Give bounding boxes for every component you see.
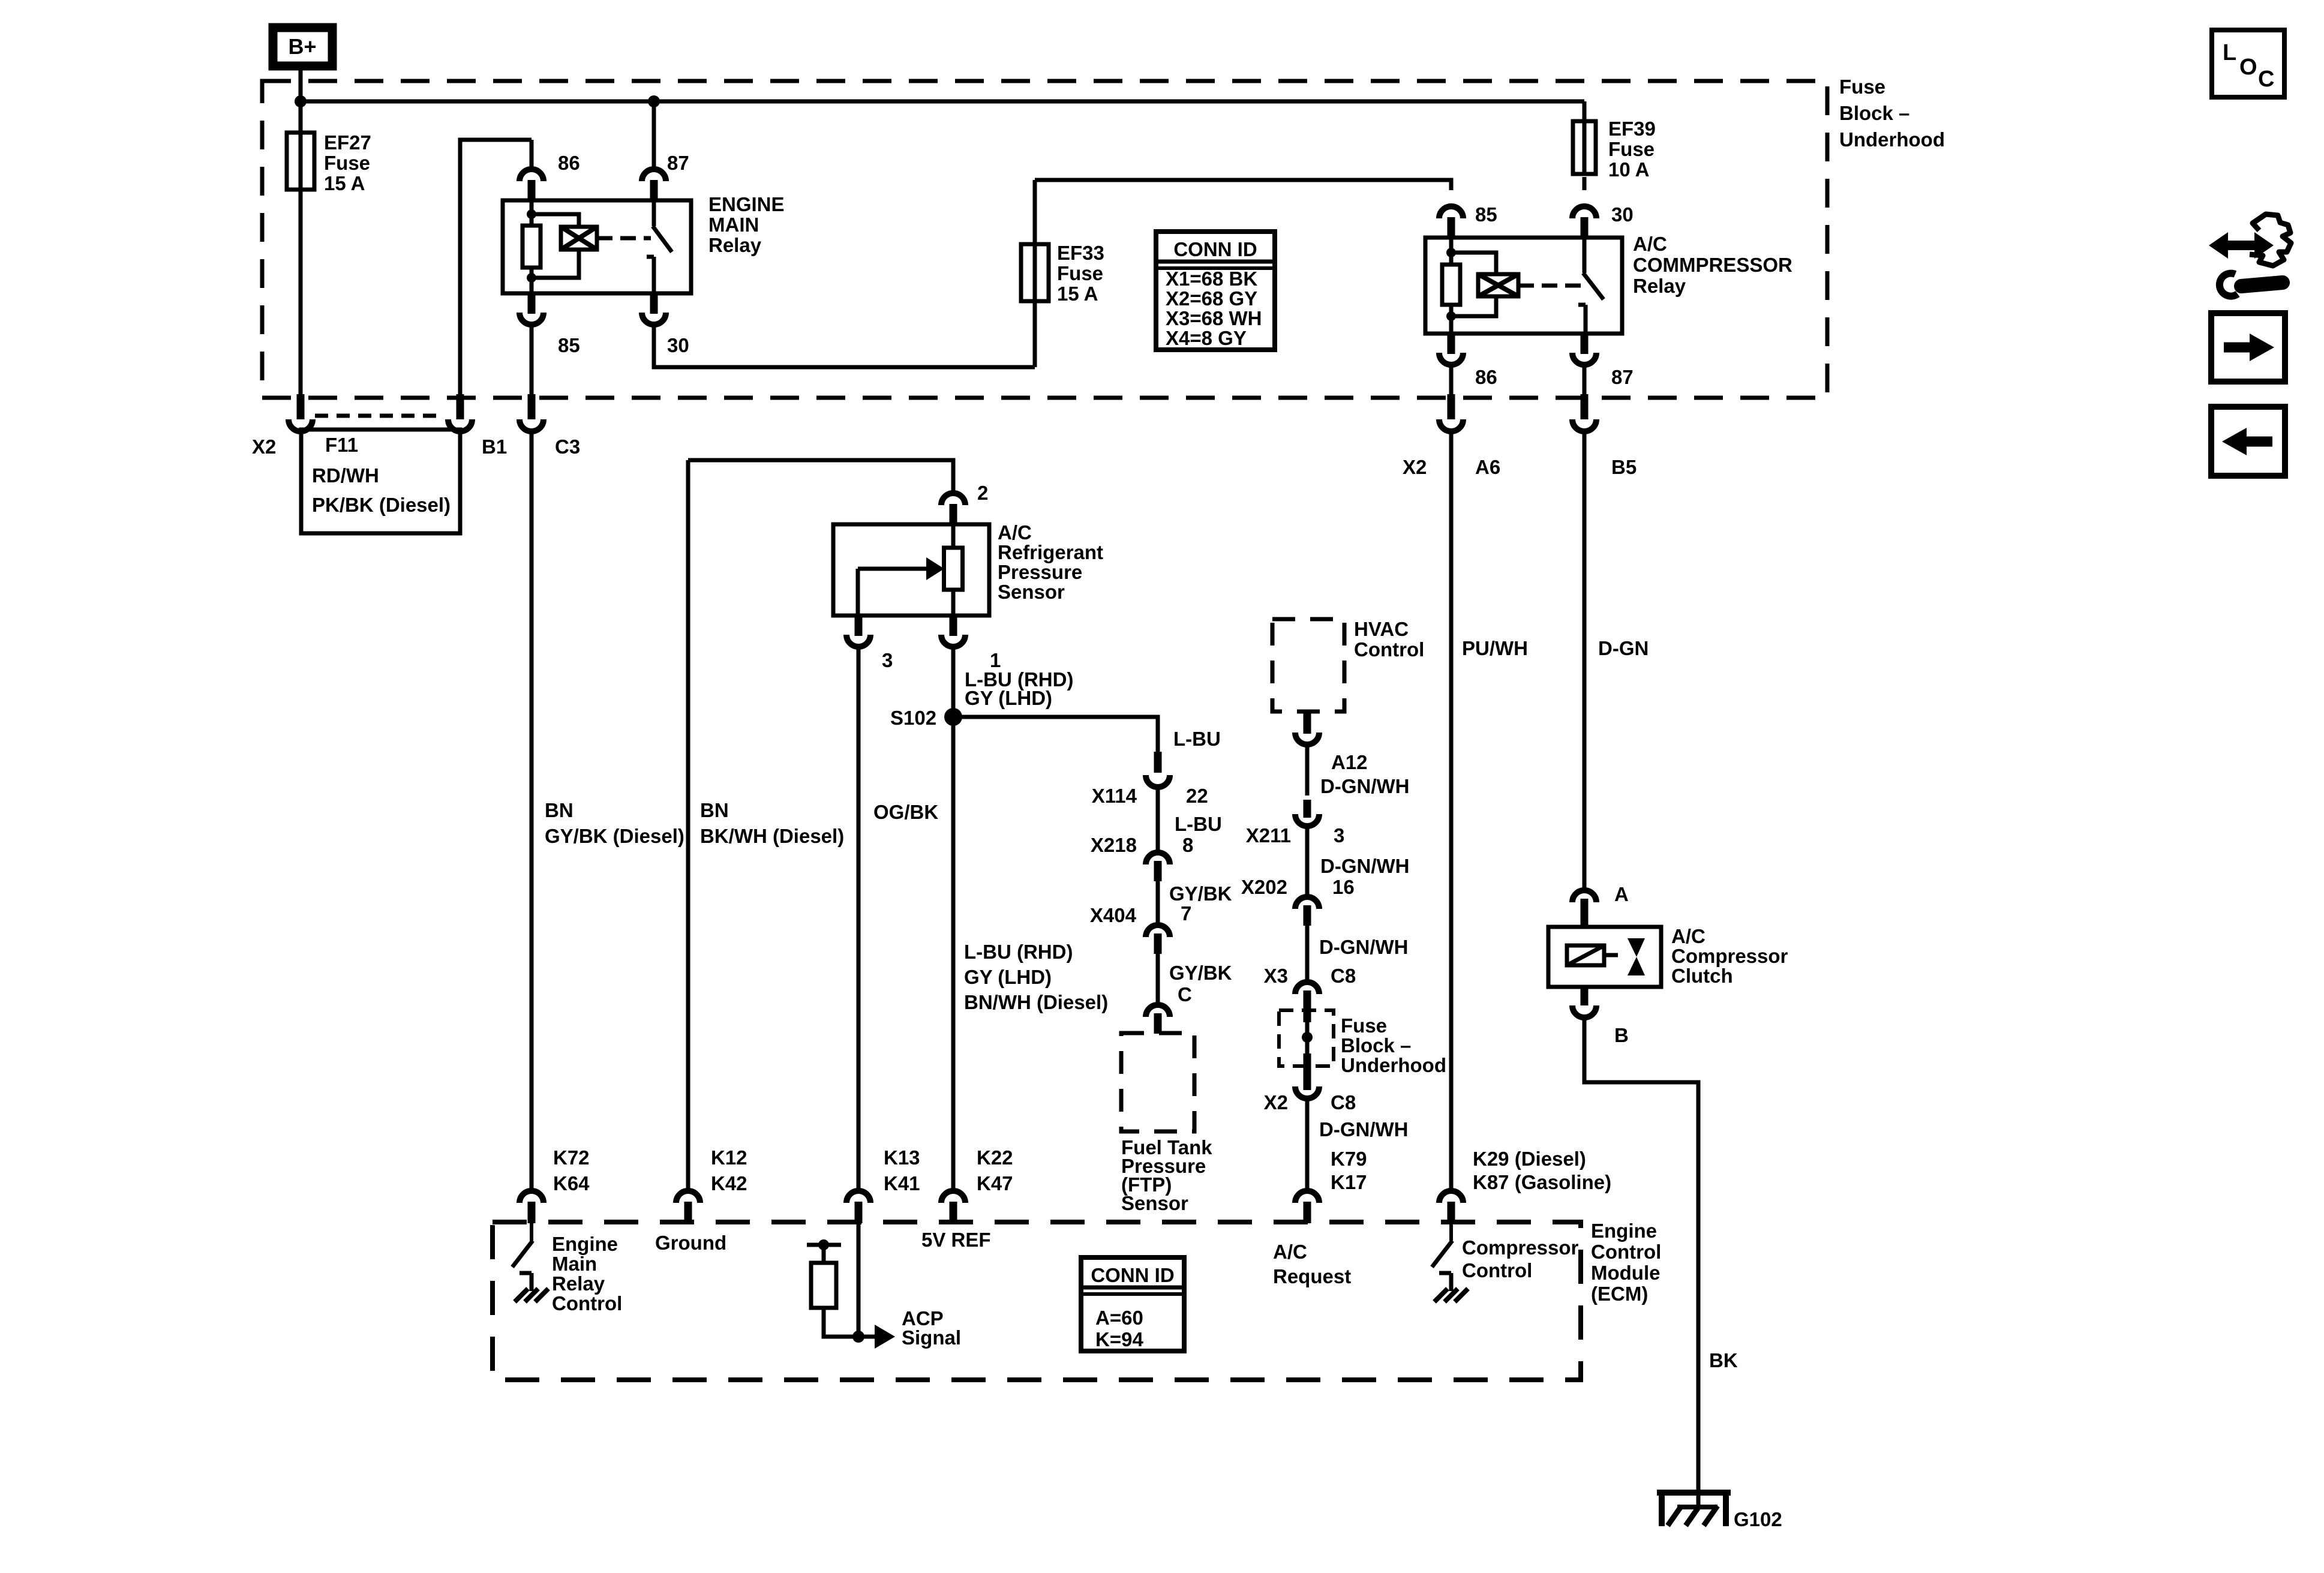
svg-text:BN/WH (Diesel): BN/WH (Diesel) — [964, 991, 1108, 1013]
svg-text:BK/WH (Diesel): BK/WH (Diesel) — [700, 825, 844, 847]
svg-text:K42: K42 — [711, 1172, 747, 1194]
svg-text:A/C: A/C — [1273, 1241, 1307, 1263]
svg-text:Fuse: Fuse — [1341, 1014, 1387, 1037]
svg-text:EF27: EF27 — [324, 131, 371, 154]
svg-text:10 A: 10 A — [1608, 158, 1649, 181]
svg-text:Control: Control — [1462, 1259, 1532, 1281]
svg-text:K47: K47 — [977, 1172, 1013, 1194]
svg-text:X1=68 BK: X1=68 BK — [1166, 268, 1257, 290]
svg-text:BK: BK — [1709, 1349, 1738, 1371]
svg-text:Block –: Block – — [1341, 1034, 1411, 1056]
svg-text:Sensor: Sensor — [998, 581, 1065, 603]
svg-text:X404: X404 — [1090, 904, 1137, 926]
svg-text:Pressure: Pressure — [998, 561, 1082, 583]
svg-text:GY/BK (Diesel): GY/BK (Diesel) — [545, 825, 684, 847]
svg-text:C8: C8 — [1331, 1091, 1356, 1113]
svg-text:85: 85 — [1475, 203, 1497, 226]
svg-text:A6: A6 — [1475, 456, 1500, 478]
svg-text:F11: F11 — [325, 434, 358, 456]
svg-text:Relay: Relay — [552, 1272, 605, 1295]
svg-text:L: L — [2223, 40, 2236, 65]
svg-text:B: B — [1614, 1024, 1629, 1046]
svg-text:X3=68 WH: X3=68 WH — [1166, 307, 1262, 329]
svg-text:K=94: K=94 — [1095, 1328, 1143, 1350]
svg-text:C3: C3 — [555, 436, 580, 458]
svg-text:85: 85 — [558, 334, 580, 356]
svg-text:A/C: A/C — [1633, 233, 1667, 255]
svg-text:5V REF: 5V REF — [921, 1229, 991, 1251]
svg-text:7: 7 — [1181, 902, 1191, 924]
svg-text:87: 87 — [667, 152, 689, 174]
svg-text:A/C: A/C — [1671, 925, 1706, 947]
svg-text:X3: X3 — [1264, 965, 1288, 987]
svg-text:D-GN: D-GN — [1598, 637, 1649, 659]
svg-text:L-BU (RHD): L-BU (RHD) — [964, 941, 1073, 963]
svg-text:Refrigerant: Refrigerant — [998, 541, 1103, 563]
svg-text:HVAC: HVAC — [1354, 618, 1409, 640]
svg-text:X2: X2 — [1403, 456, 1427, 478]
svg-text:X2: X2 — [252, 436, 276, 458]
svg-text:Engine: Engine — [552, 1233, 618, 1255]
svg-text:EF33: EF33 — [1057, 242, 1104, 264]
svg-text:D-GN/WH: D-GN/WH — [1320, 855, 1409, 877]
svg-text:Signal: Signal — [902, 1326, 961, 1349]
svg-text:K87 (Gasoline): K87 (Gasoline) — [1473, 1171, 1611, 1193]
svg-text:87: 87 — [1611, 366, 1634, 388]
svg-text:X4=8 GY: X4=8 GY — [1166, 327, 1247, 349]
svg-text:86: 86 — [558, 152, 580, 174]
svg-text:Compressor: Compressor — [1462, 1236, 1579, 1259]
svg-text:Relay: Relay — [1633, 275, 1686, 297]
svg-text:Sensor: Sensor — [1121, 1192, 1188, 1214]
svg-text:X202: X202 — [1241, 876, 1287, 898]
svg-text:2: 2 — [977, 482, 988, 504]
svg-text:X211: X211 — [1246, 824, 1291, 846]
svg-text:Fuse: Fuse — [1608, 138, 1655, 160]
svg-text:Block –: Block – — [1839, 102, 1909, 124]
svg-text:C: C — [2258, 67, 2274, 92]
svg-text:MAIN: MAIN — [708, 214, 759, 236]
svg-text:GY/BK: GY/BK — [1169, 882, 1232, 905]
svg-text:D-GN/WH: D-GN/WH — [1320, 775, 1409, 797]
svg-text:Control: Control — [1591, 1241, 1661, 1263]
svg-text:B+: B+ — [288, 34, 316, 59]
svg-text:PK/BK (Diesel): PK/BK (Diesel) — [312, 494, 451, 516]
svg-text:BN: BN — [700, 799, 729, 821]
svg-text:L-BU: L-BU — [1173, 728, 1221, 750]
svg-text:Compressor: Compressor — [1671, 945, 1788, 967]
svg-text:K13: K13 — [884, 1146, 920, 1169]
svg-text:B1: B1 — [482, 436, 507, 458]
svg-text:Ground: Ground — [655, 1232, 726, 1254]
svg-text:EF39: EF39 — [1608, 118, 1656, 140]
svg-text:D-GN/WH: D-GN/WH — [1319, 936, 1408, 958]
svg-text:X2: X2 — [1264, 1091, 1288, 1113]
svg-text:16: 16 — [1332, 876, 1355, 898]
svg-text:K72: K72 — [553, 1146, 590, 1169]
svg-text:Fuse: Fuse — [1839, 76, 1885, 98]
svg-text:K64: K64 — [553, 1172, 590, 1194]
svg-text:K22: K22 — [977, 1146, 1013, 1169]
svg-text:A/C: A/C — [998, 521, 1032, 544]
svg-text:Module: Module — [1591, 1262, 1660, 1284]
svg-text:Request: Request — [1273, 1265, 1351, 1287]
svg-text:15 A: 15 A — [1057, 283, 1098, 305]
svg-text:30: 30 — [1611, 203, 1634, 226]
svg-text:G102: G102 — [1734, 1508, 1782, 1530]
svg-text:D-GN/WH: D-GN/WH — [1319, 1118, 1408, 1140]
svg-text:86: 86 — [1475, 366, 1497, 388]
svg-text:C8: C8 — [1331, 965, 1356, 987]
svg-text:PU/WH: PU/WH — [1462, 637, 1528, 659]
svg-text:COMMPRESSOR: COMMPRESSOR — [1633, 254, 1792, 276]
svg-text:K29 (Diesel): K29 (Diesel) — [1473, 1148, 1586, 1170]
svg-text:Underhood: Underhood — [1839, 128, 1945, 151]
svg-text:Fuse: Fuse — [324, 152, 370, 174]
svg-text:ENGINE: ENGINE — [708, 193, 785, 215]
svg-text:8: 8 — [1182, 834, 1193, 856]
svg-text:(ECM): (ECM) — [1591, 1283, 1648, 1305]
svg-text:Control: Control — [1354, 638, 1424, 661]
svg-text:Clutch: Clutch — [1671, 965, 1733, 987]
svg-text:Relay: Relay — [708, 234, 762, 256]
svg-text:A12: A12 — [1331, 751, 1368, 773]
svg-text:GY/BK: GY/BK — [1169, 962, 1232, 984]
svg-text:X2=68 GY: X2=68 GY — [1166, 287, 1257, 310]
svg-text:OG/BK: OG/BK — [873, 801, 938, 823]
svg-text:K41: K41 — [884, 1172, 920, 1194]
svg-text:RD/WH: RD/WH — [312, 464, 379, 487]
svg-text:30: 30 — [667, 334, 689, 356]
svg-text:C: C — [1178, 983, 1192, 1005]
svg-text:GY (LHD): GY (LHD) — [964, 966, 1052, 988]
svg-text:Control: Control — [552, 1292, 622, 1314]
svg-text:3: 3 — [882, 649, 893, 671]
svg-text:22: 22 — [1186, 785, 1208, 807]
svg-text:Underhood: Underhood — [1341, 1054, 1446, 1076]
svg-text:CONN ID: CONN ID — [1173, 238, 1257, 260]
svg-text:A=60: A=60 — [1095, 1307, 1143, 1329]
svg-text:K17: K17 — [1331, 1171, 1367, 1193]
svg-text:K79: K79 — [1331, 1148, 1367, 1170]
svg-text:L-BU: L-BU — [1175, 813, 1222, 835]
svg-text:X218: X218 — [1091, 834, 1137, 856]
svg-text:GY (LHD): GY (LHD) — [965, 687, 1052, 709]
svg-text:B5: B5 — [1611, 456, 1637, 478]
svg-text:15 A: 15 A — [324, 172, 365, 194]
svg-text:A: A — [1614, 883, 1629, 905]
svg-text:Engine: Engine — [1591, 1220, 1657, 1242]
svg-text:BN: BN — [545, 799, 574, 821]
svg-text:S102: S102 — [890, 707, 936, 729]
svg-text:K12: K12 — [711, 1146, 747, 1169]
svg-text:X114: X114 — [1092, 785, 1137, 807]
svg-text:Fuse: Fuse — [1057, 262, 1103, 284]
svg-text:CONN ID: CONN ID — [1091, 1264, 1174, 1286]
svg-text:3: 3 — [1334, 824, 1344, 846]
svg-text:O: O — [2239, 55, 2257, 80]
svg-text:Main: Main — [552, 1253, 597, 1275]
